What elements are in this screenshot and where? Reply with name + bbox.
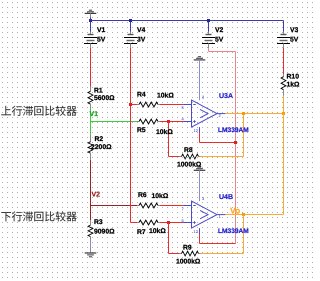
battery V2 (5V): [202, 27, 224, 48]
wire: node V2 branch to R6: [91, 205, 139, 207]
wire: R4 to U3A -in: [160, 104, 184, 106]
resistor R7: [137, 220, 166, 236]
wire: R9 branch right: [169, 253, 181, 255]
wire: R6 to U4B -in: [160, 205, 184, 207]
wire: V3 to R10: [283, 48, 285, 74]
wire: R7 to U4B +in: [160, 222, 184, 224]
battery V3 (5V): [277, 27, 299, 48]
svg-text:R9: R9: [183, 244, 192, 251]
svg-text:12: 12: [194, 128, 199, 133]
resistor R10: [281, 74, 300, 96]
battery V4 (3V): [124, 27, 146, 48]
svg-text:2200Ω: 2200Ω: [91, 144, 112, 151]
wire: V2 long vertical: [235, 52, 237, 244]
ground GND4 above U4B (flipped): [194, 167, 206, 170]
svg-text:V4: V4: [137, 27, 146, 34]
svg-text:R6: R6: [138, 192, 147, 199]
wire: Vo horizontal: [225, 214, 284, 216]
wire: top ground rail: [91, 20, 284, 22]
wire: node V2 to R3: [90, 206, 92, 221]
svg-text:U3A: U3A: [219, 93, 233, 100]
wire: R2 to node V2 (maroon): [90, 160, 92, 206]
wire: right vertical to Vo: [283, 114, 285, 215]
svg-text:10kΩ: 10kΩ: [156, 129, 173, 136]
svg-text:R4: R4: [137, 91, 146, 98]
wire: V3 top drop: [283, 21, 285, 32]
wire: U3A bottom wire right: [200, 142, 236, 144]
svg-text:R3: R3: [94, 219, 103, 226]
wire: R8 branch down: [168, 122, 170, 157]
wire: V4 down to R7 corner: [130, 48, 132, 223]
svg-text:10kΩ: 10kΩ: [152, 193, 169, 200]
resistor R8: [177, 147, 202, 168]
wire: R3 to ground (periwinkle): [90, 241, 92, 249]
junction: R5 / R8 branch: [167, 120, 170, 123]
wire: R4 branch from V4 wire: [131, 104, 139, 106]
wire: U3A top pin stem: [199, 60, 201, 100]
wire: V2 jog right: [209, 51, 236, 53]
resistor R6: [137, 192, 169, 208]
svg-text:R10: R10: [287, 74, 300, 81]
resistor R3: [88, 219, 115, 240]
wire: R10 bottom to out line: [283, 96, 285, 114]
wire: node V1 branch to R5: [91, 121, 139, 123]
junction: U3A bottom / V2 net: [234, 141, 237, 144]
wire: U3A bottom pin wire: [199, 133, 201, 142]
resistor R9: [176, 244, 201, 265]
svg-text:1000kΩ: 1000kΩ: [177, 162, 202, 169]
ground GND2: [85, 253, 97, 257]
svg-text:Vo: Vo: [230, 206, 240, 216]
junction: V4 wire / R4: [129, 103, 132, 106]
wire: R9 right lead to Vo net: [200, 253, 244, 255]
junction: out1 / R10: [282, 112, 285, 115]
resistor R4: [137, 91, 174, 107]
svg-text:R1: R1: [94, 88, 103, 95]
svg-text:R5: R5: [137, 127, 146, 134]
svg-text:1000kΩ: 1000kΩ: [176, 259, 201, 266]
ground GND1 (flipped): [85, 10, 97, 13]
junction: out1 / R8: [242, 112, 245, 115]
junction: rail-V2: [207, 19, 210, 22]
op-amp U3A (LM339AM): [182, 93, 250, 134]
junction: rail-V4: [129, 19, 132, 22]
wire: GND1 stem: [90, 13, 92, 17]
svg-text:V1: V1: [90, 111, 99, 118]
svg-text:5V: 5V: [290, 37, 299, 44]
resistor R2: [88, 135, 112, 160]
wire: U4B top pin stem: [199, 170, 201, 201]
wire: V1 top stub: [90, 21, 92, 32]
junction: Vo / R9 branch: [242, 213, 245, 216]
junction: R7 / R9 branch: [167, 221, 170, 224]
resistor R1: [88, 87, 115, 109]
wire: R9 branch down: [168, 223, 170, 254]
svg-text:12: 12: [194, 229, 199, 234]
wire: V4 corner to R7: [131, 222, 139, 224]
battery V1 (5V): [84, 27, 106, 48]
wire: V1 to R1: [90, 48, 92, 87]
op-amp U4B (LM339AM): [182, 194, 250, 235]
svg-text:LM339AM: LM339AM: [218, 127, 249, 134]
ground GND3 above U3A (flipped): [194, 57, 206, 60]
svg-text:V2: V2: [92, 192, 101, 199]
resistor R5: [137, 119, 173, 136]
svg-text:1kΩ: 1kΩ: [287, 82, 301, 89]
svg-text:V1: V1: [97, 27, 106, 34]
svg-text:9090Ω: 9090Ω: [94, 229, 115, 236]
svg-text:V3: V3: [290, 27, 299, 34]
svg-text:U4B: U4B: [219, 194, 233, 201]
svg-text:V2: V2: [215, 27, 224, 34]
wire: U4B bottom pin wire: [199, 235, 201, 244]
svg-text:5600Ω: 5600Ω: [94, 95, 115, 102]
wire: out1 down to R8: [243, 114, 245, 157]
wire: V2 top stub: [208, 21, 210, 32]
wire: V2 bottom drop: [208, 47, 210, 52]
junction: rail-V1: [89, 19, 92, 22]
svg-text:3V: 3V: [137, 37, 146, 44]
svg-text:R2: R2: [95, 136, 104, 143]
svg-text:R7: R7: [137, 229, 146, 236]
wire: V4 top stub: [130, 21, 132, 32]
svg-text:R8: R8: [184, 147, 193, 154]
wire: Vo down to R9: [243, 215, 245, 254]
wire: R5 to U3A +in: [160, 121, 184, 123]
svg-text:5V: 5V: [215, 37, 224, 44]
wire: U3A output to R10 node: [225, 113, 283, 115]
wire: U4B bottom wire right: [200, 243, 236, 245]
wire: R8 branch right: [169, 156, 181, 158]
text label: 上行滞回比较器 (rising hysteresis comparator): [1, 106, 76, 116]
svg-text:LM339AM: LM339AM: [218, 228, 249, 235]
wire: R8 right lead to out1: [200, 156, 244, 158]
svg-text:10kΩ: 10kΩ: [149, 228, 166, 235]
wire: ground stem: [90, 249, 92, 254]
wire: U4B bottom pin stub: [199, 228, 201, 235]
text label: 下行滞回比较器 (falling hysteresis comparator): [1, 211, 76, 221]
svg-text:10kΩ: 10kΩ: [157, 92, 174, 99]
wire: U3A bottom pin stub: [199, 127, 201, 133]
svg-text:5V: 5V: [97, 37, 106, 44]
wire: R1 to node V1 (green): [90, 109, 92, 135]
